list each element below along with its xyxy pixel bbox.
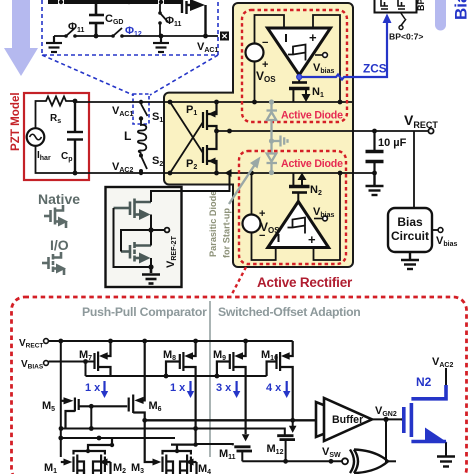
BP switch: [401, 13, 407, 26]
Vbias terminal lower: [314, 218, 323, 220]
VREF-2T rotated label: [165, 235, 178, 268]
vref ground: [142, 267, 160, 284]
VAC1 square connector: [220, 32, 229, 41]
inset top bus wire: [48, 0, 182, 4]
VGN2 node: [372, 418, 401, 420]
inductor L: [138, 119, 146, 155]
supply rail bottom: [49, 340, 293, 342]
S1 zoom target dashed box: [133, 94, 149, 124]
svg-text:4 x: 4 x: [266, 382, 282, 394]
lower Active Diode red dashed box: [239, 151, 346, 264]
svg-text:+: +: [308, 232, 316, 247]
hysteresis glyph lower: [288, 218, 306, 234]
offset source Vos top: [246, 44, 264, 62]
svg-text:BP<0:7>: BP<0:7>: [389, 32, 423, 42]
gate cross wires: [170, 102, 203, 173]
svg-text:Buffer: Buffer: [332, 414, 363, 426]
svg-text:I/O: I/O: [50, 237, 69, 253]
node dot 10uF top: [372, 129, 377, 134]
svg-text:Bias: Bias: [397, 215, 423, 229]
Bias Circuit box: [388, 208, 432, 252]
switch S2: [141, 156, 147, 169]
vref wires: [114, 173, 230, 267]
N2 source ground: [445, 443, 447, 457]
ground under bias circuit: [401, 252, 419, 269]
detail inset: blue dashed callout box: [42, 0, 218, 95]
VRECT mid line from pair: [217, 130, 431, 132]
VRECT terminal: [428, 128, 433, 133]
wire PZT left loop: [36, 101, 76, 173]
svg-text:N2: N2: [416, 375, 432, 389]
inset switch phi11 right vertical: [160, 4, 168, 22]
common drain bus: [86, 362, 267, 377]
Bias blue rotated label: [452, 0, 471, 20]
svg-text:Active Diode: Active Diode: [281, 158, 343, 170]
svg-text:+: +: [259, 208, 265, 220]
switch S1: [141, 104, 148, 116]
svg-text:Bias: Bias: [452, 0, 471, 20]
lower comparator wires: [252, 173, 341, 260]
svg-text:−: −: [262, 37, 268, 49]
svg-text:3 x: 3 x: [216, 382, 232, 394]
wire VRECT to bias circuit: [413, 131, 415, 208]
lavender capsule top right: [435, 0, 446, 31]
inset switch row wire: [54, 28, 218, 36]
svg-text:Push-Pull Comparator: Push-Pull Comparator: [82, 305, 207, 319]
wire VAC1 rail: [75, 101, 352, 103]
svg-text:Switched-Offset Adaption: Switched-Offset Adaption: [218, 305, 361, 319]
legend io transistor symbol: [42, 252, 61, 272]
upper comparator input wires: [255, 15, 341, 102]
gray startup arrow: [229, 163, 256, 204]
PZT Model rotated label: [9, 92, 22, 151]
op-amp U1 comparator top: [268, 28, 331, 75]
lavender flow arrow left: [4, 0, 38, 76]
op-amp U2 comparator bottom (points up): [268, 202, 329, 248]
hysteresis glyph: [288, 45, 306, 61]
yellow highlight region (union shape): [164, 3, 353, 267]
legend native transistor symbol: [44, 205, 63, 225]
bottom detail red dashed box: [12, 297, 467, 474]
inset ground left: [46, 36, 62, 52]
upper Active Diode red dashed box: [242, 10, 347, 122]
Vbias output terminal of bias circuit: [432, 229, 438, 231]
rail F: [61, 437, 175, 439]
Vbias terminal top: [315, 54, 323, 56]
vref output terminal: [165, 228, 170, 233]
capacitor 10uF: [373, 131, 375, 150]
ZCS blue wire: [299, 22, 387, 80]
vref native transistor top: [114, 199, 152, 219]
svg-text:10 µF: 10 µF: [378, 137, 407, 149]
transistor P2: [203, 131, 217, 173]
inset ground middle: [153, 36, 169, 52]
gnd rail extension right: [352, 172, 375, 174]
ground under 10uF: [366, 173, 384, 195]
svg-text:Native: Native: [38, 191, 80, 207]
header divider: [209, 301, 211, 457]
buffer: [316, 402, 360, 437]
svg-text:for Start-up: for Start-up: [222, 208, 232, 258]
svg-text:L: L: [124, 129, 131, 143]
svg-text:Circuit: Circuit: [391, 229, 429, 243]
source join line to VSW: [242, 460, 341, 462]
BP peak-detector box: [375, 0, 417, 13]
svg-text:+: +: [309, 30, 317, 45]
vertical supply drop left: [60, 341, 62, 457]
inset capacitor CGD: [89, 4, 104, 35]
resistor Rs: [44, 97, 75, 106]
PZT Model red box: [24, 93, 89, 180]
inset PMOS transistor top right: [182, 0, 206, 36]
svg-text:PZT Model: PZT Model: [9, 92, 22, 151]
svg-text:BP: BP: [416, 0, 426, 11]
svg-text:1 x: 1 x: [170, 382, 186, 394]
thick mid rail to buffer: [145, 419, 316, 421]
current source Ihar: [27, 128, 45, 146]
arrow on VAC2 rail in pair box: [225, 169, 232, 177]
wire VAC2 rail: [75, 172, 352, 174]
capacitor Cp: [67, 101, 83, 173]
svg-text:Active Rectifier: Active Rectifier: [257, 275, 353, 290]
svg-text:ZCS: ZCS: [363, 62, 387, 76]
VREF-2T box: [106, 187, 182, 287]
gate rail E: [61, 429, 285, 435]
vref io transistor bottom: [121, 242, 151, 262]
offset source Vos bottom: [243, 215, 261, 233]
XOR gate: [342, 458, 348, 464]
parasitic diode chain gray: [267, 102, 288, 172]
transistor P1: [203, 102, 217, 131]
transistor N1: [298, 75, 300, 83]
svg-text:Active Diode: Active Diode: [281, 110, 343, 122]
BP box inner transistors: [381, 0, 405, 9]
Parasitic Diode for Start-up rotated text: [208, 191, 218, 257]
node dots P1P2 rails: [168, 100, 232, 176]
transistor N2: [298, 173, 307, 180]
vbias wire: [49, 361, 95, 363]
red callout dashes to bottom box: [232, 267, 246, 294]
svg-text:1 x: 1 x: [85, 382, 101, 394]
svg-text:Parasitic Diode: Parasitic Diode: [208, 191, 218, 257]
